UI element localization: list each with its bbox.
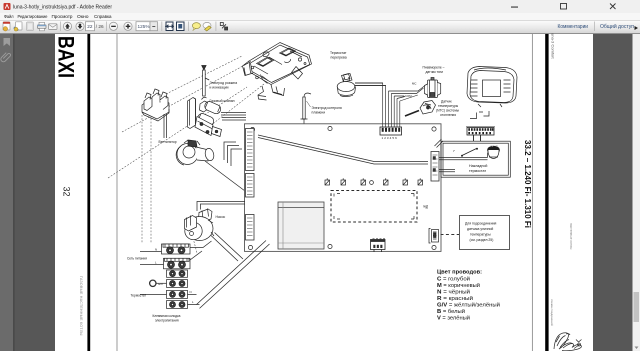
construction line	[141, 115, 143, 243]
terminal block row 2	[164, 258, 191, 269]
note box: outdoor sensor connection	[460, 216, 510, 250]
svg-text:Сеть питания: Сеть питания	[127, 257, 147, 261]
control panel housing (rear view)	[467, 67, 517, 108]
relay K2	[341, 178, 346, 185]
toolbar icon: print	[39, 22, 45, 25]
svg-text:R = красный: R = красный	[437, 295, 473, 302]
svg-text:Датчик: Датчик	[441, 100, 452, 104]
svg-text:luna-3-hotly_instruktsiya.pdf: luna-3-hotly_instruktsiya.pdf - Adobe Re…	[13, 5, 112, 11]
overheat thermostat	[337, 74, 355, 97]
ignition electrode	[202, 66, 210, 97]
svg-text:и ионизации: и ионизации	[210, 86, 229, 90]
wire: room thermostat leads	[140, 294, 200, 304]
toolbar overflow arrow	[635, 26, 639, 30]
terminal block row 4	[167, 280, 188, 288]
BAXI logo (rotated)	[54, 36, 79, 78]
table frame line right	[531, 34, 533, 351]
app icon	[4, 3, 11, 10]
svg-text:BAXI: BAXI	[54, 36, 79, 78]
svg-text:Пневмореле –: Пневмореле –	[423, 66, 445, 70]
svg-text:отопления: отопления	[440, 113, 456, 117]
terminal block row 5	[167, 290, 188, 298]
relay K4	[384, 178, 389, 185]
toolbar icon: highlight pen	[203, 22, 211, 28]
svg-text:Файл: Файл	[4, 13, 14, 20]
svg-text:32: 32	[62, 187, 72, 197]
svg-text:Общий доступ: Общий доступ	[600, 23, 634, 30]
switch contact	[453, 148, 478, 157]
title bar	[0, 0, 640, 13]
zoom level box	[136, 22, 150, 31]
svg-text:Газовый клапан: Газовый клапан	[210, 99, 235, 103]
close button	[610, 4, 616, 10]
page number box	[86, 22, 95, 31]
wire: mains input N	[140, 251, 162, 253]
transformer T1	[278, 202, 324, 249]
svg-text:Справка: Справка	[94, 14, 112, 20]
wire: outdoor sensor link (dashed)	[441, 234, 460, 236]
toolbar icon: disabled page	[27, 22, 34, 31]
mounting brackets	[470, 111, 489, 119]
label: Электрод контроля пламени	[307, 101, 311, 107]
flame electrode	[301, 93, 312, 126]
hole	[370, 181, 374, 185]
relay K3	[361, 178, 366, 185]
toolbar icon: open	[3, 22, 10, 30]
bracket assembly (ignition unit holder)	[243, 43, 312, 101]
connector J3 (PCB left)	[246, 215, 255, 241]
display connector (dashed footprint)	[331, 191, 417, 223]
margin caption near rule (rotated)	[550, 299, 554, 326]
black rule right	[545, 34, 548, 351]
PCB mounting holes	[248, 126, 436, 249]
toolbar icon: zoom in	[124, 22, 132, 30]
terminal block row 6	[167, 301, 188, 309]
maximize button	[561, 4, 567, 10]
svg-text:Электрод розжига: Электрод розжига	[210, 81, 238, 85]
svg-text:t°: t°	[453, 149, 455, 153]
relay K6	[418, 178, 423, 185]
separator	[60, 22, 62, 32]
minimize button	[511, 7, 518, 8]
svg-text:V = зелёный: V = зелёный	[437, 315, 470, 322]
toolbar icon: save	[16, 22, 23, 30]
svg-text:перегрева: перегрева	[331, 56, 347, 60]
wire: fan cable	[205, 161, 245, 191]
svg-text:/ 26: / 26	[96, 24, 104, 29]
svg-text:Вентилятор: Вентилятор	[159, 140, 177, 144]
toolbar icon: fit page	[177, 22, 185, 31]
connector J5 (6-pin ignition harness)	[380, 127, 402, 135]
svg-text:Накладной: Накладной	[469, 164, 487, 168]
relay K5	[403, 178, 408, 185]
surface thermostat sensor	[487, 146, 500, 159]
svg-text:kg]: kg]	[424, 205, 429, 209]
wire: overheat thermostat leads	[355, 83, 386, 86]
svg-text:температуры: температуры	[438, 104, 459, 108]
connector X1 (faston lugs)	[142, 89, 169, 121]
label: wire colour legend	[437, 270, 500, 322]
svg-text:Электрод контроля: Электрод контроля	[312, 106, 342, 110]
scrollbar	[633, 34, 640, 351]
svg-text:22: 22	[87, 24, 93, 29]
black rule left	[87, 34, 90, 351]
svg-text:термостат: термостат	[469, 169, 486, 173]
sidebar icon: bookmarks	[4, 38, 11, 46]
draught pressure switch	[425, 78, 441, 98]
wire: gas valve harness	[221, 113, 246, 167]
svg-text:una-3 Comfort: una-3 Comfort	[551, 33, 556, 59]
wire: limit thermostat box wiring	[439, 153, 488, 172]
Westen logo sketch	[554, 333, 582, 351]
construction line	[166, 56, 242, 94]
svg-text:электропитания: электропитания	[155, 319, 179, 323]
svg-text:123456: 123456	[382, 136, 398, 140]
relay K1	[325, 178, 330, 185]
toolbar	[0, 20, 640, 33]
wire: top harness bundle	[355, 83, 425, 127]
svg-text:COM: COM	[405, 94, 412, 98]
table frame line left	[116, 34, 118, 351]
wire: mains harness diagonals	[197, 241, 270, 309]
terminal block (mains): row 1	[162, 244, 191, 254]
limit thermostat box	[435, 139, 511, 177]
construction line	[108, 87, 247, 178]
svg-text:33.2 – 1.240 Fi- 1.310 Fi: 33.2 – 1.240 Fi- 1.310 Fi	[523, 140, 533, 228]
svg-text:схема соединений: схема соединений	[550, 299, 554, 326]
PDF page	[55, 34, 593, 351]
svg-text:пламени: пламени	[312, 111, 326, 115]
separator	[161, 22, 163, 32]
svg-text:Для подсоединения: Для подсоединения	[465, 222, 497, 226]
toolbar icon: fit width	[166, 22, 173, 31]
svg-text:C = голубой: C = голубой	[437, 276, 470, 283]
connector J6 (10-pin, limit thermostat)	[466, 127, 495, 141]
svg-text:(см. раздел 25): (см. раздел 25)	[470, 238, 494, 242]
separator	[187, 22, 189, 32]
outdoor sensor connector	[429, 229, 439, 244]
wire: ground lead	[156, 282, 167, 284]
pump	[185, 209, 215, 241]
svg-text:Комментарии: Комментарии	[558, 24, 589, 30]
margin caption right small (rotated)	[569, 223, 573, 250]
svg-text:Цвет проводов:: Цвет проводов:	[437, 270, 482, 276]
connector J4 (PCB bottom)	[371, 239, 386, 252]
separator	[215, 22, 217, 32]
svg-text:Окно: Окно	[77, 14, 89, 20]
wire: sensor pair to limit thermostat box	[258, 135, 428, 164]
svg-text:N: N	[190, 290, 192, 294]
model caption 33.2 (rotated)	[523, 140, 533, 228]
toolbar icon: previous page	[63, 22, 71, 30]
wire: pump supply	[197, 202, 245, 212]
wire: pump drain leads	[211, 233, 243, 262]
NTC sensor	[405, 101, 436, 117]
svg-text:Редактирование: Редактирование	[18, 14, 48, 20]
construction line	[193, 238, 197, 253]
svg-text:(NTC) системы: (NTC) системы	[436, 109, 460, 113]
connector J7 (box inlet on PCB edge)	[431, 152, 439, 182]
svg-text:MC: MC	[412, 82, 416, 86]
connector J2 (PCB left)	[246, 174, 255, 198]
construction line	[122, 61, 252, 132]
svg-text:датчика уличной: датчика уличной	[467, 227, 493, 231]
fan	[176, 140, 215, 165]
toolbar icon: comment bubble	[192, 23, 200, 29]
margin caption: Luna-3 Comfort (rotated)	[551, 33, 556, 59]
navigation sidebar	[0, 34, 14, 351]
toolbar icon: email	[49, 24, 58, 30]
svg-text:Термостат: Термостат	[330, 51, 347, 55]
svg-text:Просмотр: Просмотр	[52, 14, 73, 20]
svg-text:N: N	[155, 248, 157, 252]
svg-text:настенные котлы: настенные котлы	[569, 223, 573, 250]
gas valve	[188, 97, 223, 136]
toolbar icon: next page	[76, 22, 84, 30]
wire: pump feed from terminal	[190, 241, 212, 260]
sidebar icon: attachments	[1, 53, 11, 62]
menu bar	[0, 13, 640, 20]
svg-text:G/V = жёлтый/зелёный: G/V = жёлтый/зелёный	[437, 302, 500, 309]
connector J1 (PCB left: gas valve / fan)	[246, 129, 255, 171]
toolbar icon: zoom out	[109, 22, 117, 30]
terminal block row 3	[167, 270, 188, 277]
svg-text:Клеммная колодка: Клеммная колодка	[153, 314, 181, 318]
svg-text:N = чёрный: N = чёрный	[437, 289, 470, 296]
wire: mains input L	[140, 264, 164, 266]
svg-text:датчик тяги: датчик тяги	[426, 70, 444, 74]
svg-text:Насос: Насос	[216, 215, 226, 219]
ground terminal	[150, 280, 156, 286]
svg-text:M = коричневый: M = коричневый	[437, 282, 480, 289]
margin caption left (rotated)	[79, 276, 83, 336]
wire: fan leads	[164, 114, 167, 138]
svg-text:ГАЗОВЫЕ НАСТЕННЫЕ КОТЛЫ: ГАЗОВЫЕ НАСТЕННЫЕ КОТЛЫ	[79, 276, 83, 336]
PCB (main control board)	[245, 124, 442, 252]
svg-text:G/V: G/V	[158, 282, 163, 286]
toolbar icon: fullscreen	[220, 23, 223, 26]
separator	[106, 22, 108, 32]
construction line	[210, 84, 264, 126]
svg-text:125%: 125%	[138, 24, 150, 29]
page number 32 (rotated)	[62, 187, 72, 197]
svg-text:температуры: температуры	[470, 233, 491, 237]
svg-text:B = белый: B = белый	[437, 308, 465, 315]
construction line	[150, 115, 152, 243]
